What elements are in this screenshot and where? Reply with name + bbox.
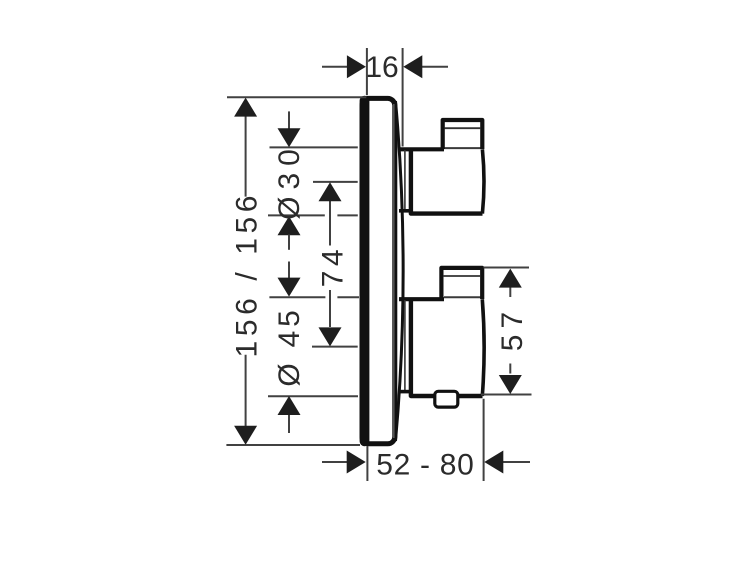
svg-text:16: 16 — [365, 51, 398, 84]
svg-text:57: 57 — [496, 306, 529, 351]
svg-text:52 - 80: 52 - 80 — [376, 449, 474, 482]
svg-text:156 / 156: 156 / 156 — [231, 191, 264, 358]
svg-text:74: 74 — [317, 245, 350, 287]
svg-text:Ø 45: Ø 45 — [273, 306, 306, 386]
svg-text:Ø30: Ø30 — [273, 142, 306, 220]
